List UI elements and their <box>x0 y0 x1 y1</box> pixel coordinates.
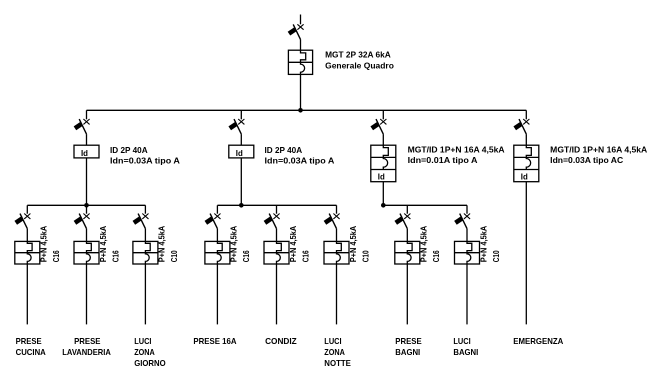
MCB A1 box <box>15 241 40 264</box>
svg-text:P+N 4,5kA: P+N 4,5kA <box>98 226 108 263</box>
MCB B3 box <box>324 241 349 264</box>
svg-text:PRESE: PRESE <box>74 336 101 346</box>
svg-text:LAVANDERIA: LAVANDERIA <box>62 347 111 357</box>
svg-text:ZONA: ZONA <box>324 347 345 357</box>
svg-text:C16: C16 <box>110 250 120 262</box>
wire sub-bus B <box>217 204 336 206</box>
MCB A3 box <box>133 241 158 264</box>
svg-text:C16: C16 <box>51 250 61 262</box>
svg-text:CONDIZ: CONDIZ <box>265 336 297 346</box>
svg-text:MGT/ID 1P+N 16A 4,5kA: MGT/ID 1P+N 16A 4,5kA <box>550 144 647 154</box>
svg-text:C10: C10 <box>169 250 179 262</box>
wire sub A2 drop <box>86 205 88 213</box>
svg-text:GIORNO: GIORNO <box>134 358 166 368</box>
wire main incomer <box>300 15 302 25</box>
wire B2 load <box>276 264 278 324</box>
MCB B1 box <box>205 241 230 264</box>
svg-text:BAGNI: BAGNI <box>453 347 478 357</box>
wire B1 load <box>216 264 218 324</box>
RCBO QD box <box>514 145 539 182</box>
wire <box>86 134 88 145</box>
svg-text:LUCI: LUCI <box>453 336 470 346</box>
wire <box>466 229 468 242</box>
breaker contact Q0 <box>288 24 304 39</box>
MGT main breaker Q0 box <box>288 50 312 74</box>
wire sub B3 drop <box>336 205 338 213</box>
breaker contact branch D <box>513 119 529 134</box>
svg-text:P+N 4,5kA: P+N 4,5kA <box>229 226 239 263</box>
wire branch C drop <box>382 110 384 119</box>
breaker contact A1 <box>14 214 30 229</box>
wire C1 load <box>406 264 408 324</box>
wire <box>144 229 146 242</box>
wire B3 load <box>336 264 338 324</box>
wire sub-bus C <box>383 204 467 206</box>
breaker contact C1 <box>394 214 410 229</box>
node sub-bus B junction <box>239 203 244 208</box>
node sub-bus A junction <box>84 203 89 208</box>
wire <box>382 182 384 206</box>
wire A1 load <box>26 264 28 324</box>
svg-text:Generale Quadro: Generale Quadro <box>325 61 394 71</box>
wire sub B2 drop <box>276 205 278 213</box>
wire <box>406 229 408 242</box>
MCB B2 box <box>264 241 289 264</box>
svg-text:P+N 4,5kA: P+N 4,5kA <box>419 226 429 263</box>
wire <box>86 158 88 205</box>
MCB A2 box <box>74 241 99 264</box>
RCD ID1 box <box>74 145 99 158</box>
wire <box>26 229 28 242</box>
wire sub C2 drop <box>466 205 468 213</box>
RCD ID2 box <box>229 145 254 158</box>
svg-text:PRESE: PRESE <box>16 336 42 346</box>
svg-text:C16: C16 <box>431 250 441 262</box>
wire <box>276 229 278 242</box>
svg-text:BAGNI: BAGNI <box>395 347 420 357</box>
wire <box>240 158 242 205</box>
wire <box>300 39 302 50</box>
svg-text:LUCI: LUCI <box>134 336 151 346</box>
svg-text:MGT/ID 1P+N 16A 4,5kA: MGT/ID 1P+N 16A 4,5kA <box>408 144 505 154</box>
wire <box>525 134 527 145</box>
breaker contact B3 <box>324 214 340 229</box>
svg-text:P+N 4,5kA: P+N 4,5kA <box>478 226 488 263</box>
breaker contact branch B <box>228 119 244 134</box>
svg-text:Idn=0.03A tipo A: Idn=0.03A tipo A <box>265 155 335 165</box>
svg-text:P+N 4,5kA: P+N 4,5kA <box>157 226 167 263</box>
svg-text:P+N 4,5kA: P+N 4,5kA <box>288 226 298 263</box>
node sub-bus C junction <box>381 203 386 208</box>
node main bus junction <box>298 108 303 113</box>
wire <box>86 229 88 242</box>
wire sub C1 drop <box>406 205 408 213</box>
breaker contact A3 <box>133 214 149 229</box>
svg-text:ZONA: ZONA <box>134 347 155 357</box>
wire sub-bus A <box>27 204 145 206</box>
breaker contact B2 <box>264 214 280 229</box>
svg-text:C10: C10 <box>491 250 501 262</box>
RCBO QC box <box>371 145 396 182</box>
svg-text:LUCI: LUCI <box>324 336 341 346</box>
svg-text:Idn=0.01A tipo A: Idn=0.01A tipo A <box>408 155 478 165</box>
wire <box>382 134 384 145</box>
wire sub A1 drop <box>26 205 28 213</box>
wire <box>300 74 302 110</box>
svg-text:EMERGENZA: EMERGENZA <box>513 336 563 346</box>
wire <box>216 229 218 242</box>
wire <box>336 229 338 242</box>
wire C2 load <box>466 264 468 324</box>
breaker contact B1 <box>205 214 221 229</box>
wire A3 load <box>144 264 146 324</box>
svg-text:C16: C16 <box>300 250 310 262</box>
svg-text:PRESE 16A: PRESE 16A <box>193 336 236 346</box>
breaker contact branch A <box>74 119 90 134</box>
svg-text:CUCINA: CUCINA <box>16 347 46 357</box>
svg-text:NOTTE: NOTTE <box>324 358 351 368</box>
svg-text:P+N 4,5kA: P+N 4,5kA <box>39 226 49 263</box>
svg-text:Idn=0.03A tipo AC: Idn=0.03A tipo AC <box>550 155 623 165</box>
svg-text:PRESE: PRESE <box>395 336 422 346</box>
wire sub B1 drop <box>216 205 218 213</box>
svg-text:MGT 2P 32A 6kA: MGT 2P 32A 6kA <box>325 49 391 59</box>
svg-text:P+N 4,5kA: P+N 4,5kA <box>348 226 358 263</box>
breaker contact A2 <box>74 214 90 229</box>
wire branch D load <box>525 182 527 325</box>
wire sub A3 drop <box>144 205 146 213</box>
breaker contact C2 <box>454 214 470 229</box>
svg-text:C10: C10 <box>360 250 370 262</box>
wire branch B drop <box>240 110 242 119</box>
svg-text:ID 2P 40A: ID 2P 40A <box>110 145 148 155</box>
svg-text:ID 2P 40A: ID 2P 40A <box>265 145 303 155</box>
wire <box>240 134 242 145</box>
wire branch A drop <box>86 110 88 119</box>
svg-text:Idn=0.03A tipo A: Idn=0.03A tipo A <box>110 155 180 165</box>
svg-text:C16: C16 <box>241 250 251 262</box>
wire main bus <box>87 109 527 111</box>
breaker contact branch C <box>370 119 386 134</box>
MCB C2 box <box>455 241 480 264</box>
wire branch D drop <box>525 110 527 119</box>
MCB C1 box <box>395 241 420 264</box>
wire A2 load <box>86 264 88 324</box>
